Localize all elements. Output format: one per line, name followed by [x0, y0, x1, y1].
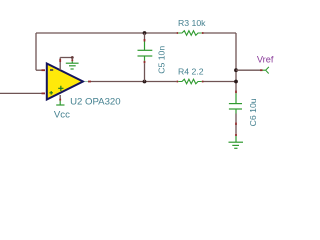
wire non-inverting input from left edge — [0, 92, 42, 94]
capacitor C6 bottom pin wire — [235, 114, 237, 134]
pin tick op-amp output — [88, 81, 91, 83]
op-amp V- pin stub (top) — [59, 58, 61, 71]
resistor R3 — [178, 31, 202, 36]
junction C5 bottom — [143, 80, 147, 84]
svg-text:C6 10u: C6 10u — [248, 98, 258, 126]
junction C5 top — [143, 31, 147, 35]
op-amp plus sign (input) — [49, 91, 53, 95]
pin tick R3 left — [177, 32, 179, 34]
pin tick Vref — [260, 69, 263, 71]
op-amp U2 body — [47, 64, 83, 100]
pin tick op-amp non-inverting input — [42, 92, 46, 94]
pin tick ground bottom — [235, 134, 237, 136]
op-amp V+ pin stub (bottom) — [59, 95, 61, 99]
capacitor C6 symbol — [229, 93, 242, 113]
ground stub above op-amp — [71, 58, 73, 60]
wire to inverting input — [36, 69, 42, 71]
wire feedback top horizontal — [36, 32, 177, 34]
junction dot at ground stub — [71, 56, 74, 59]
pin tick R3 right — [202, 32, 204, 34]
pin tick op-amp V- — [59, 59, 61, 62]
capacitor C5 top pin wire — [144, 33, 146, 39]
pin tick C5 top — [144, 39, 146, 42]
capacitor C5 symbol — [138, 42, 153, 61]
node Vref terminal chevron — [263, 67, 269, 74]
svg-text:Vcc: Vcc — [54, 109, 70, 120]
pin tick R4 right — [202, 81, 204, 83]
wire feedback left vertical — [35, 33, 37, 70]
junction R4 output — [234, 80, 238, 84]
resistor R4 — [178, 79, 202, 84]
wire Vref tap — [236, 69, 260, 71]
capacitor C5 bottom pin wire — [144, 63, 146, 81]
op-amp V+ plus sign — [58, 86, 63, 91]
pin tick R4 left — [177, 81, 179, 83]
pin tick op-amp inverting input — [42, 69, 46, 71]
pin tick op-amp V+ — [59, 99, 61, 101]
op-amp output pin stub — [85, 81, 89, 83]
pin tick C5 bottom — [144, 61, 146, 63]
Vcc supply symbol — [56, 101, 64, 105]
pin tick C6 bottom — [235, 122, 237, 125]
ground symbol above op-amp — [66, 61, 79, 69]
svg-text:R3 10k: R3 10k — [178, 18, 206, 28]
pin tick C6 top — [235, 91, 237, 94]
wire output row left — [91, 81, 177, 83]
wire R3 to right rail — [204, 32, 237, 34]
op-amp minus sign — [50, 69, 53, 71]
svg-text:Vref: Vref — [257, 55, 274, 65]
svg-text:U2 OPA320: U2 OPA320 — [70, 97, 120, 108]
svg-text:R4 2.2: R4 2.2 — [178, 67, 204, 77]
svg-text:C5 10n: C5 10n — [157, 46, 167, 74]
pin tick ground (top) — [71, 60, 73, 62]
node Vref junction — [234, 68, 238, 72]
wire V- to ground — [60, 57, 72, 59]
wire R4 to right rail — [204, 81, 237, 83]
ground symbol bottom — [229, 136, 244, 148]
wire right rail vertical — [235, 33, 237, 91]
